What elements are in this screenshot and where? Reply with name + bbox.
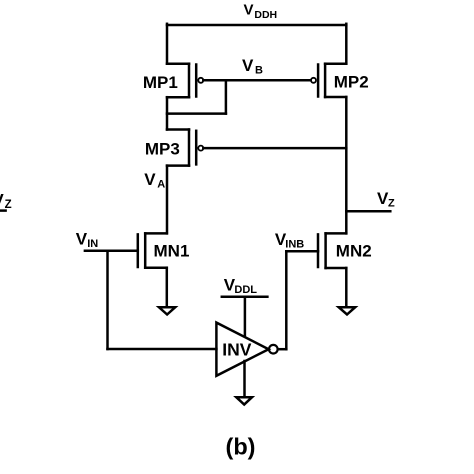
svg-text:MP2: MP2	[334, 73, 369, 92]
svg-text:INV: INV	[222, 340, 252, 360]
svg-text:Z: Z	[5, 199, 12, 211]
svg-text:V: V	[144, 170, 156, 189]
svg-text:MN1: MN1	[154, 241, 190, 260]
svg-text:V: V	[242, 56, 254, 75]
svg-text:A: A	[157, 178, 165, 190]
svg-text:MN2: MN2	[336, 241, 372, 260]
svg-text:(b): (b)	[226, 434, 256, 460]
svg-text:DDH: DDH	[254, 9, 277, 21]
svg-text:IN: IN	[87, 238, 98, 250]
svg-text:Z: Z	[388, 197, 395, 209]
svg-text:MP3: MP3	[145, 140, 180, 159]
svg-text:INB: INB	[285, 239, 304, 251]
svg-text:V: V	[244, 2, 254, 19]
svg-text:DDL: DDL	[234, 284, 257, 296]
svg-text:B: B	[255, 64, 263, 76]
svg-text:V: V	[76, 230, 88, 249]
svg-text:MP1: MP1	[143, 73, 178, 92]
